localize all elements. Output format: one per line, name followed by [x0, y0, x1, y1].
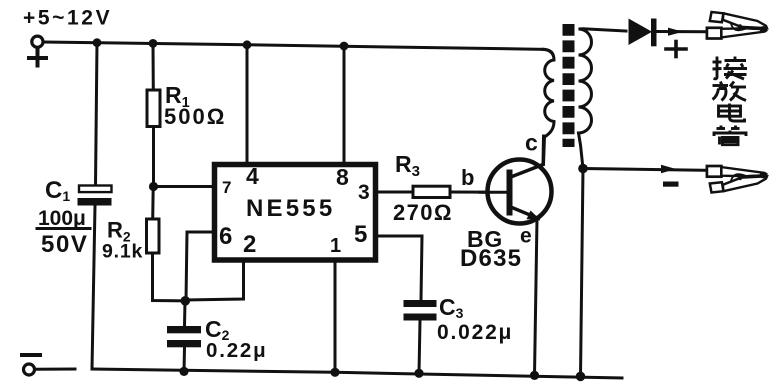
label 100u — [37, 207, 90, 230]
wire R1 top lead — [152, 43, 155, 90]
resistor R1 — [147, 90, 160, 127]
node C2 top — [181, 296, 191, 306]
node C2 ground — [179, 367, 188, 376]
node R1 R2 pin7 — [149, 182, 158, 191]
wire C2 lower lead — [183, 347, 187, 371]
wire pin6 — [186, 232, 215, 301]
svg-text:0.22μ: 0.22μ — [206, 339, 267, 362]
transformer T1 primary — [543, 49, 554, 164]
svg-text:8: 8 — [336, 164, 349, 190]
char fang — [713, 82, 747, 101]
node pin8 rail — [340, 42, 349, 51]
wire bottom rail — [92, 369, 622, 378]
label - polarity bottom — [22, 353, 40, 357]
wire C1 lower — [92, 206, 95, 370]
svg-text:100μ: 100μ — [38, 207, 86, 230]
svg-text:500Ω: 500Ω — [164, 104, 226, 129]
wire diode to clip — [657, 30, 708, 33]
wire R2 top lead — [151, 187, 155, 220]
label + polarity top — [29, 51, 46, 66]
label - output — [663, 182, 679, 187]
svg-text:D635: D635 — [460, 245, 522, 272]
svg-text:9.1k: 9.1k — [102, 241, 143, 263]
wire minus lead — [583, 169, 710, 171]
char jie — [713, 57, 748, 80]
svg-text:b: b — [461, 165, 474, 190]
label + output — [666, 42, 686, 57]
capacitor C3 — [404, 300, 437, 321]
node secondary bottom — [578, 164, 588, 174]
wire pin7 — [154, 185, 215, 188]
wire collector — [542, 136, 546, 165]
svg-text:3: 3 — [358, 181, 370, 204]
wire emitter — [535, 219, 538, 376]
char guan — [714, 126, 746, 145]
node pin1 ground — [330, 368, 339, 377]
node emitter ground — [530, 371, 539, 380]
arrow minus lead — [661, 165, 676, 173]
wire pin1 — [334, 260, 337, 372]
wire R1 bottom lead — [152, 127, 155, 187]
wire C2 upper lead — [183, 301, 187, 326]
svg-text:2: 2 — [243, 231, 256, 258]
svg-text:1: 1 — [330, 235, 341, 257]
resistor R2 — [147, 219, 160, 253]
svg-text:4: 4 — [246, 163, 259, 189]
transistor Q1 BG D635 — [480, 160, 552, 224]
terminal - input — [24, 364, 35, 375]
capacitor C2 — [167, 326, 201, 347]
wire bottom terminal — [35, 368, 75, 371]
wire pin4 — [246, 45, 249, 165]
svg-text:7: 7 — [222, 178, 231, 197]
svg-text:270Ω: 270Ω — [393, 200, 453, 225]
node secondary ground — [576, 372, 586, 382]
wire secondary to ground — [581, 169, 584, 377]
capacitor C1 — [78, 186, 112, 206]
resistor R3 — [413, 186, 450, 197]
svg-text:0.022μ: 0.022μ — [437, 321, 513, 344]
svg-text:5: 5 — [354, 221, 367, 248]
op-amp U1 NE555 box — [215, 165, 376, 261]
svg-text:6: 6 — [219, 223, 232, 250]
node C1 top — [93, 38, 102, 47]
svg-text:50V: 50V — [41, 231, 89, 258]
arrow plus lead — [668, 28, 683, 36]
node C3 ground — [414, 369, 423, 378]
terminal + input — [32, 36, 43, 47]
wire pin5 — [376, 236, 423, 300]
clip positive — [707, 12, 768, 39]
transformer T1 core — [563, 24, 575, 147]
char dian — [719, 104, 745, 122]
wire top rail — [44, 42, 544, 49]
wire pin8 — [343, 46, 346, 165]
wire C1 upper — [96, 43, 98, 186]
transformer T1 secondary — [579, 29, 627, 169]
wire R2 bottom to node — [153, 253, 186, 301]
wire pin3 — [376, 191, 414, 194]
node R1 top — [149, 39, 158, 48]
svg-text:NE555: NE555 — [246, 195, 335, 222]
label chinese connect discharge tube — [713, 57, 748, 145]
wire pin2 — [186, 260, 244, 300]
clip negative — [707, 166, 768, 193]
svg-text:c: c — [525, 130, 538, 156]
wire base — [450, 191, 510, 194]
diode D1 — [629, 19, 657, 47]
svg-text:+5~12V: +5~12V — [23, 7, 112, 30]
wire C3 lower lead — [419, 321, 420, 374]
node pin4 rail — [243, 40, 252, 49]
